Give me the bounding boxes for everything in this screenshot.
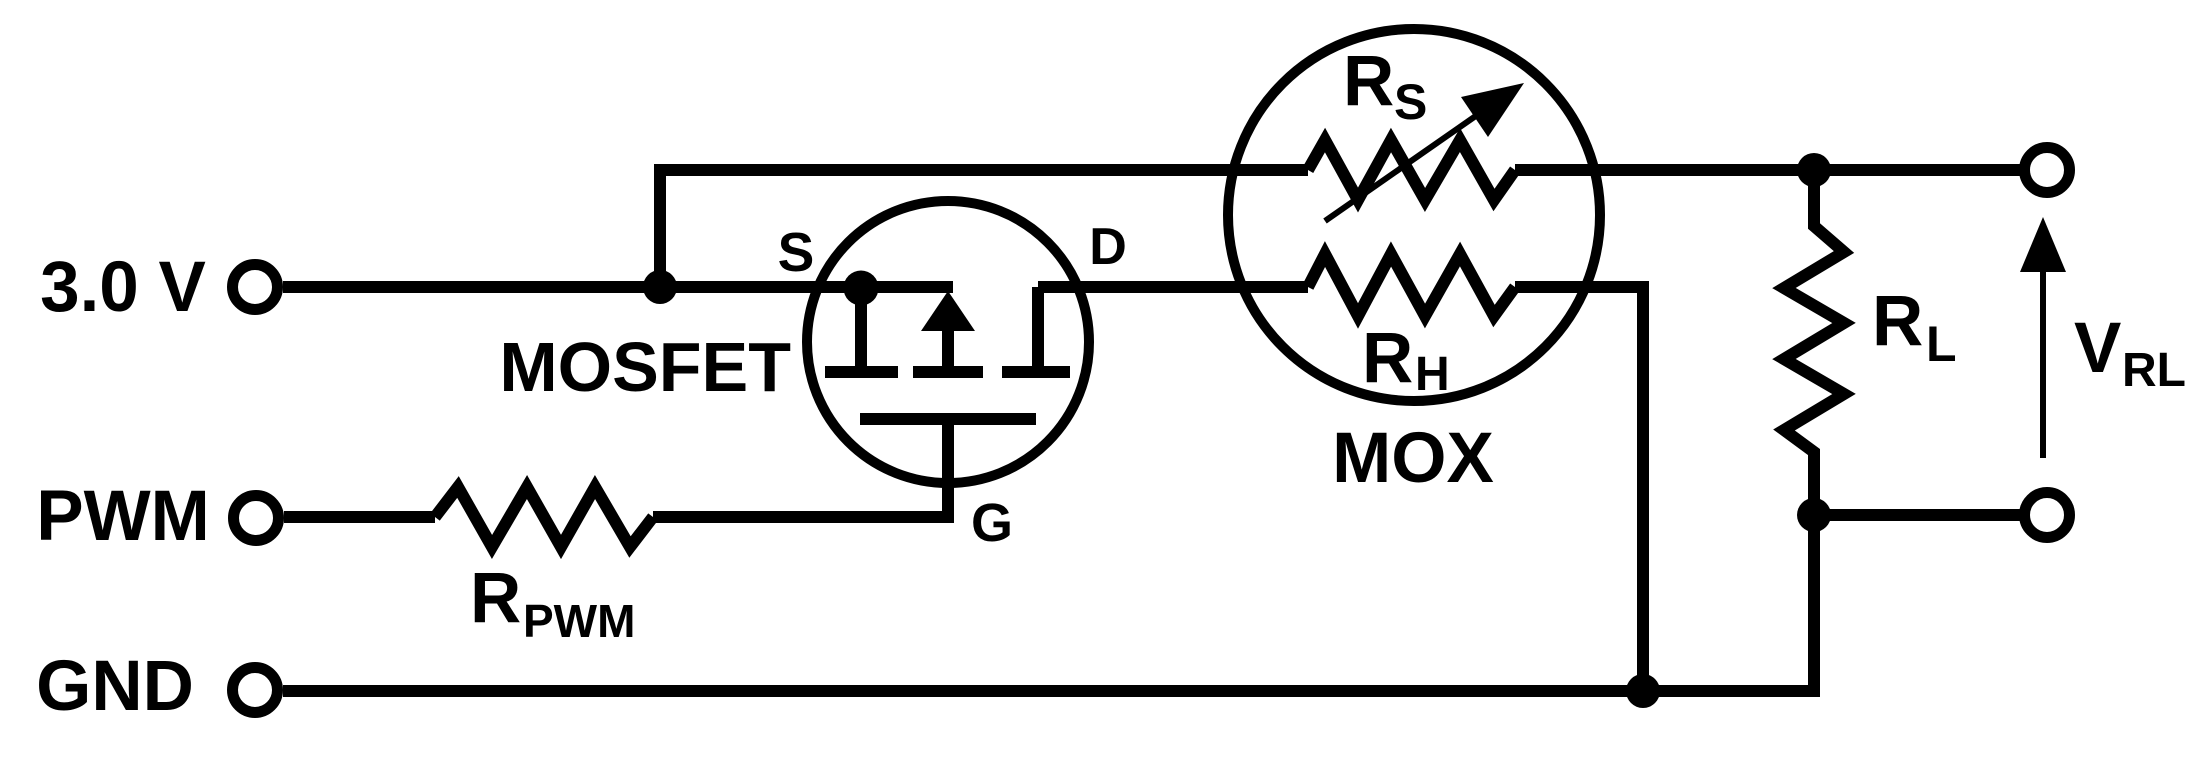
- svg-text:R: R: [1343, 42, 1394, 121]
- svg-text:MOX: MOX: [1332, 419, 1494, 498]
- VRL arrow head: [2020, 217, 2066, 272]
- resistor RH: [1308, 254, 1515, 316]
- svg-text:PWM: PWM: [36, 477, 210, 556]
- terminal output bottom: [2025, 493, 2070, 538]
- svg-text:G: G: [971, 493, 1013, 553]
- wire riser to top bus: [654, 170, 666, 287]
- svg-text:S: S: [1394, 74, 1427, 130]
- svg-text:GND: GND: [36, 647, 194, 726]
- top bus left segment: [654, 164, 1308, 176]
- top bus right segment: [1515, 164, 2025, 176]
- MOSFET channel stub body: [913, 366, 983, 378]
- resistor RL: [1784, 170, 1844, 515]
- wire 3.0V to MOSFET source: [283, 281, 953, 293]
- sensor MOX circle: [1228, 29, 1600, 401]
- node junction RL top: [1797, 153, 1831, 187]
- MOSFET channel stub source: [825, 366, 898, 378]
- svg-text:D: D: [1089, 218, 1127, 276]
- terminal GND: [233, 668, 278, 713]
- wire RPWM to gate: [653, 511, 954, 523]
- terminal PWM: [234, 496, 279, 541]
- MOSFET source vertical lead: [855, 288, 867, 367]
- node junction GND/RH: [1626, 674, 1660, 708]
- wire RH to GND bus: [1515, 287, 1643, 691]
- transistor MOSFET body circle: [807, 201, 1089, 483]
- MOSFET body arrow stem: [942, 328, 954, 372]
- node junction 3.0V/top bus: [643, 270, 677, 304]
- wire RL bottom to output terminal: [1814, 509, 2025, 521]
- node junction S: [844, 271, 879, 306]
- RS variable arrow line: [1325, 113, 1480, 221]
- svg-text:R: R: [470, 559, 521, 638]
- svg-text:RL: RL: [2122, 344, 2186, 397]
- svg-text:R: R: [1362, 319, 1413, 398]
- MOSFET gate plate: [860, 413, 1036, 425]
- MOSFET drain vertical lead: [1032, 287, 1044, 367]
- MOSFET channel stub drain: [1002, 366, 1070, 378]
- wire GND bus: [283, 515, 1814, 691]
- svg-text:S: S: [778, 221, 815, 283]
- node junction RL bottom: [1797, 498, 1831, 532]
- wire PWM to RPWM: [284, 511, 435, 523]
- resistor RPWM: [435, 487, 653, 547]
- MOSFET body arrow head: [921, 291, 975, 331]
- resistor RS: [1308, 140, 1515, 200]
- svg-text:PWM: PWM: [523, 595, 635, 647]
- svg-text:R: R: [1872, 282, 1923, 361]
- terminal 3.0V: [233, 265, 278, 310]
- svg-text:MOSFET: MOSFET: [499, 328, 791, 406]
- VRL arrow stem: [2040, 270, 2046, 458]
- svg-text:V: V: [2074, 309, 2121, 388]
- svg-text:L: L: [1926, 316, 1957, 372]
- MOSFET gate lead down: [942, 419, 954, 523]
- wire drain to RH: [1038, 281, 1308, 293]
- svg-text:3.0 V: 3.0 V: [40, 248, 206, 327]
- terminal output top: [2025, 148, 2070, 193]
- RS variable arrow head: [1461, 83, 1524, 137]
- svg-text:H: H: [1415, 348, 1450, 401]
